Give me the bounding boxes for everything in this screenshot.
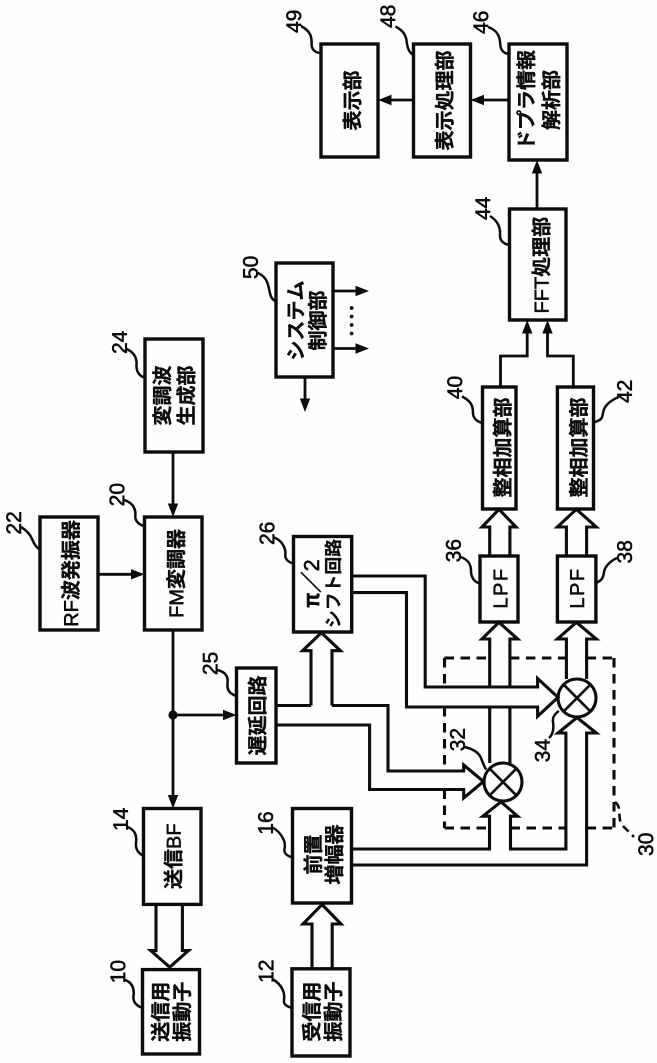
label 送信用 — [151, 984, 170, 1041]
pipe mixer-32 to LPF-36 (hollow arrow up) — [482, 622, 518, 763]
block 12 receive-transducer 受信用振動子 — [292, 969, 350, 1056]
reference numeral 24 — [112, 331, 127, 353]
label π/2 — [301, 560, 321, 607]
leader line 10 — [125, 980, 142, 1008]
leader line 42 — [594, 397, 619, 423]
mixer 34 — [558, 679, 596, 717]
block 40 phasing-adder 整相加算部 — [483, 387, 517, 509]
reference numeral 16 — [258, 812, 273, 833]
block 46 doppler-info-analysis ドプラ情報解析部 — [509, 44, 567, 160]
block 16 preamp 前置増幅器 — [293, 809, 352, 904]
reference numeral 26 — [260, 523, 275, 544]
label 前置 — [303, 835, 322, 873]
block 26 pi/2-shift-circuit π/2シフト回路 — [294, 537, 352, 633]
pipe transducer-12 to preamp-16 (hollow arrow up) — [303, 905, 341, 969]
reference numeral 30 — [638, 833, 653, 855]
reference numeral 38 — [617, 541, 632, 563]
leader line 22 — [21, 527, 40, 550]
block 38 LPF — [557, 556, 596, 622]
leader line 50 — [258, 273, 276, 301]
block 22 RF-oscillator RF波発振器 — [40, 517, 98, 630]
reference numeral 36 — [446, 540, 461, 562]
leader line 48 — [396, 27, 414, 56]
label システム — [287, 282, 304, 359]
label 制御部 — [308, 291, 327, 350]
reference numeral 12 — [259, 961, 274, 982]
leader line 44 — [490, 216, 510, 245]
pipe 14 to transducer-10 (hollow arrow down) — [151, 904, 189, 967]
reference numeral 20 — [110, 484, 125, 505]
wire 46 to 48 — [481, 99, 509, 102]
label 表示部 — [343, 71, 362, 130]
reference numeral 44 — [476, 197, 490, 219]
leader line 32 — [465, 747, 486, 770]
pipe LPF-36 to adder-40 (hollow arrow up) — [482, 509, 516, 557]
label 遅延回路 — [248, 676, 267, 755]
block 50 system-control システム制御部 — [276, 263, 333, 377]
ellipsis dots between 50 outputs — [350, 306, 354, 335]
reference numeral 10 — [110, 961, 125, 982]
label RF波発振器 — [61, 520, 80, 625]
mixer 32 — [484, 763, 522, 801]
wire 44 to 46 — [536, 171, 539, 209]
label 振動子(12) — [323, 982, 342, 1041]
label ドプラ情報 — [516, 50, 535, 144]
label LPF 36 — [494, 570, 508, 607]
leader line 36 — [461, 557, 480, 584]
leader line 12 — [273, 980, 292, 1009]
reference numeral 32 — [450, 729, 465, 751]
block 49 display 表示部 — [321, 44, 378, 157]
pipe LPF-38 to adder-42 (hollow arrow up) — [557, 509, 596, 557]
block 10 transmit-transducer 送信用振動子 — [143, 970, 200, 1054]
label 解析部 — [541, 71, 560, 130]
wire 50 output 1 — [333, 290, 358, 293]
block 42 phasing-adder 整相加算部 — [557, 387, 593, 509]
label FM変調器 — [166, 529, 185, 616]
label 生成部 — [176, 366, 195, 425]
label 増幅器 — [324, 825, 343, 884]
pipe preamp-16 to mixers (hollow arrows up) — [352, 718, 597, 866]
label 変調波 — [152, 366, 171, 425]
wire 24 to 20 — [172, 452, 175, 506]
leader 30 (dashed) — [615, 802, 634, 837]
dashed box 30 quadrature detector — [445, 658, 615, 828]
wire 22 to 20 — [98, 573, 133, 576]
wire 50 output bottom — [304, 377, 307, 401]
reference numeral 48 — [380, 6, 395, 28]
label 振動子(10) — [172, 983, 191, 1042]
block 20 FM-modulator FM変調器 — [145, 517, 203, 630]
leader line 49 — [301, 26, 321, 53]
reference numeral 40 — [447, 377, 462, 399]
pipe delay-25 to mixer-32 (hollow arrow) — [276, 706, 484, 799]
leader line 40 — [462, 397, 483, 424]
leader line 14 — [128, 827, 144, 856]
label 整相加算部 42 — [569, 398, 588, 497]
wire 42 to 44 — [548, 332, 574, 387]
reference numeral 34 — [535, 740, 550, 762]
block 24 modulation-wave-gen 変調波生成部 — [145, 339, 203, 452]
label LPF 38 — [570, 570, 584, 607]
label 受信用 — [302, 984, 321, 1041]
reference numeral 49 — [286, 11, 301, 33]
label 送信BF — [164, 824, 183, 888]
reference numeral 22 — [6, 512, 21, 533]
leader line 38 — [596, 558, 618, 584]
block 48 display-processing 表示処理部 — [414, 44, 471, 157]
leader line 46 — [488, 27, 509, 54]
leader line 16 — [273, 828, 293, 858]
leader line 24 — [127, 349, 145, 378]
leader line 34 — [549, 711, 559, 738]
pipe mixer-34 to LPF-38 (hollow arrow up) — [557, 622, 596, 679]
block 14 transmit-BF 送信BF — [144, 809, 202, 905]
wire junction to 25 — [173, 714, 225, 717]
wire 20 to 14 — [172, 630, 175, 797]
reference numeral 14 — [113, 808, 127, 829]
wire 50 output 2 — [333, 347, 358, 350]
label FFT処理部 — [532, 217, 551, 311]
label 整相加算部 40 — [493, 398, 512, 497]
wire 40 to 44 — [501, 332, 528, 387]
reference numeral 50 — [243, 257, 258, 279]
pipe 26 to mixer-34 (hollow arrow) — [352, 576, 558, 716]
junction node — [168, 710, 177, 719]
pipe branch to pi/2-shift 26 (hollow arrow up) — [303, 633, 341, 706]
leader line 25 — [217, 670, 236, 696]
reference numeral 42 — [617, 381, 632, 403]
reference numeral 46 — [473, 12, 488, 34]
block 44 FFT-processing FFT処理部 — [510, 209, 567, 320]
leader line 20 — [124, 500, 144, 526]
reference numeral 25 — [203, 653, 218, 674]
leader line 26 — [274, 538, 293, 564]
block 36 LPF — [480, 556, 518, 622]
wire 48 to 49 — [389, 99, 414, 102]
block 25 delay-circuit 遅延回路 — [237, 668, 277, 763]
label 表示処理部 — [435, 51, 454, 150]
label シフト回路 — [325, 539, 342, 626]
